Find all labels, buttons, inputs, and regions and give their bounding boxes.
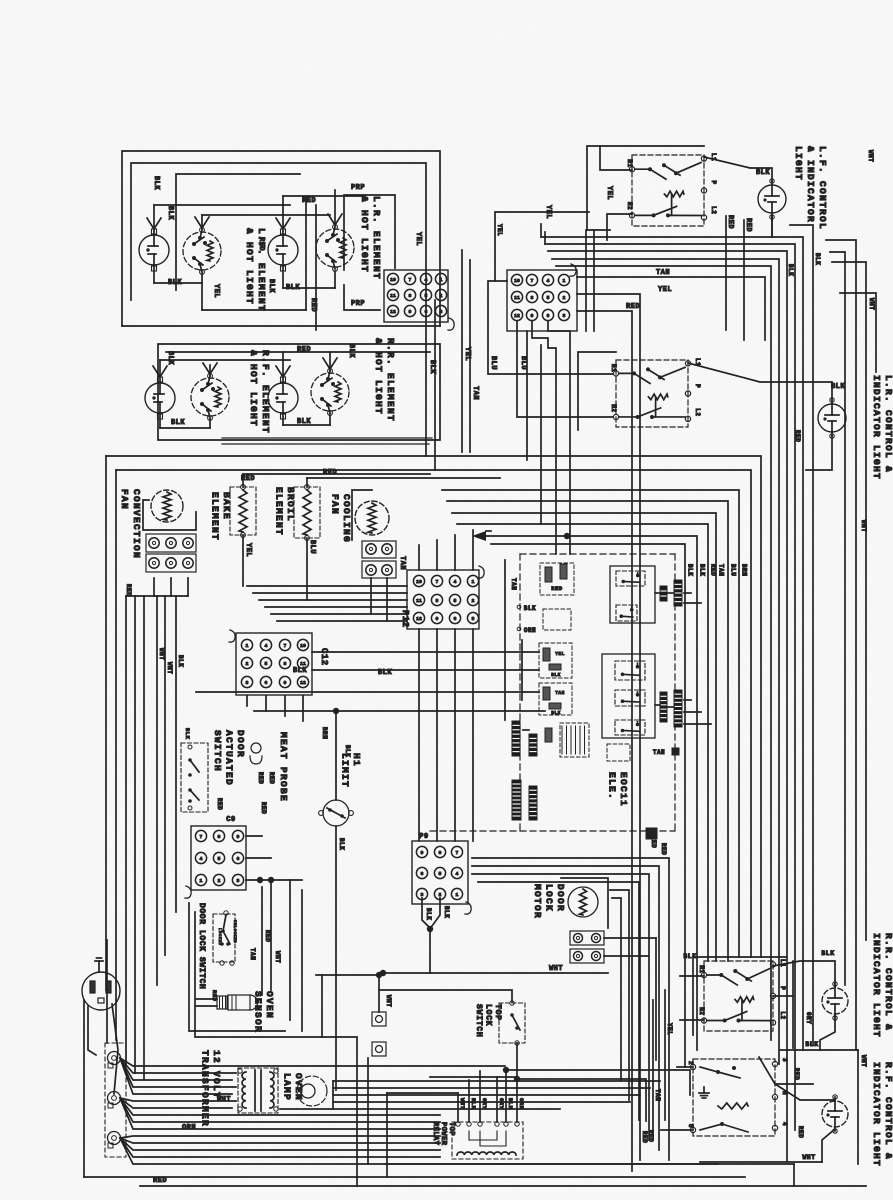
svg-text:H1: H1 xyxy=(610,364,617,372)
svg-text:TAN: TAN xyxy=(555,690,565,696)
svg-text:BLK: BLK xyxy=(171,419,185,427)
svg-text:6: 6 xyxy=(454,616,457,622)
svg-text:BRN: BRN xyxy=(741,564,748,576)
svg-text:BLK: BLK xyxy=(831,383,845,391)
svg-text:7: 7 xyxy=(200,834,203,840)
svg-text:TAN: TAN xyxy=(654,1089,661,1101)
svg-text:LOCKED: LOCKED xyxy=(217,928,221,946)
svg-text:BLK: BLK xyxy=(551,672,561,678)
svg-text:P12: P12 xyxy=(400,610,410,628)
svg-text:GRY: GRY xyxy=(805,1012,812,1024)
svg-text:RED: RED xyxy=(794,430,801,442)
svg-text:WHT: WHT xyxy=(459,1098,466,1110)
svg-text:R.F. CONTROL &INDICATOR LIGHT: R.F. CONTROL &INDICATOR LIGHT xyxy=(871,1062,893,1167)
svg-text:ORN: ORN xyxy=(182,1124,196,1132)
svg-text:TAN: TAN xyxy=(653,749,665,756)
svg-text:ORN: ORN xyxy=(518,1098,525,1109)
svg-text:BLK: BLK xyxy=(166,206,174,220)
svg-text:RED: RED xyxy=(257,237,265,251)
svg-text:L2: L2 xyxy=(710,206,717,214)
svg-text:9: 9 xyxy=(237,834,240,840)
svg-text:4: 4 xyxy=(547,278,550,284)
svg-text:3: 3 xyxy=(237,878,240,884)
svg-text:5: 5 xyxy=(265,661,268,667)
svg-text:RED: RED xyxy=(744,218,752,232)
svg-text:7: 7 xyxy=(284,643,287,649)
svg-text:2: 2 xyxy=(687,1061,694,1065)
svg-text:BLU: BLU xyxy=(730,564,737,576)
svg-text:8: 8 xyxy=(436,598,439,604)
svg-text:10: 10 xyxy=(390,277,396,283)
svg-text:5: 5 xyxy=(687,1124,694,1128)
svg-text:BLK: BLK xyxy=(821,950,834,957)
svg-text:C12: C12 xyxy=(319,648,329,666)
svg-text:BLK: BLK xyxy=(551,710,561,716)
svg-text:P: P xyxy=(779,986,786,990)
svg-text:10: 10 xyxy=(300,643,306,649)
svg-text:BLK: BLK xyxy=(443,906,450,918)
svg-text:GRY: GRY xyxy=(498,1098,505,1110)
svg-text:DOOR LOCK SWITCH: DOOR LOCK SWITCH xyxy=(197,903,206,989)
svg-text:RED: RED xyxy=(797,1126,804,1138)
svg-text:R.R. ELEMENT& HOT LIGHT: R.R. ELEMENT& HOT LIGHT xyxy=(373,338,396,422)
svg-text:YEL: YEL xyxy=(658,286,672,294)
svg-text:RED: RED xyxy=(793,1068,800,1080)
svg-text:BLK: BLK xyxy=(297,418,311,426)
svg-text:11: 11 xyxy=(514,295,520,301)
svg-text:L.R. ELEMENT& HOT LIGHT: L.R. ELEMENT& HOT LIGHT xyxy=(359,196,382,280)
svg-text:BLK: BLK xyxy=(177,655,184,667)
svg-text:5: 5 xyxy=(454,598,457,604)
svg-text:PRP: PRP xyxy=(351,300,365,308)
svg-text:H2: H2 xyxy=(698,1007,705,1015)
svg-text:5: 5 xyxy=(425,293,428,299)
svg-text:3: 3 xyxy=(440,309,443,315)
svg-text:2: 2 xyxy=(472,598,475,604)
svg-text:3: 3 xyxy=(246,680,249,686)
svg-text:BLU: BLU xyxy=(519,356,527,370)
svg-text:2: 2 xyxy=(440,293,443,299)
svg-text:BLK: BLK xyxy=(805,1041,818,1048)
svg-text:H2: H2 xyxy=(626,202,633,210)
svg-text:8: 8 xyxy=(218,834,221,840)
svg-text:BLK: BLK xyxy=(152,176,160,190)
svg-text:H1: H1 xyxy=(626,159,633,167)
svg-text:YEL: YEL xyxy=(605,186,613,200)
svg-text:TAN: TAN xyxy=(656,269,670,277)
svg-text:7: 7 xyxy=(456,850,459,856)
svg-text:H2: H2 xyxy=(610,404,617,412)
svg-text:BLK: BLK xyxy=(683,953,696,960)
svg-text:8: 8 xyxy=(409,293,412,299)
svg-text:12: 12 xyxy=(390,309,396,315)
svg-text:RED: RED xyxy=(726,215,734,229)
svg-text:WHT: WHT xyxy=(385,995,392,1007)
svg-text:RED: RED xyxy=(710,564,717,576)
svg-text:TAN: TAN xyxy=(510,578,517,590)
svg-text:WHT: WHT xyxy=(860,1055,867,1067)
svg-text:6: 6 xyxy=(425,309,428,315)
svg-text:WHT: WHT xyxy=(860,520,867,532)
svg-text:BLK: BLK xyxy=(184,728,191,740)
svg-text:YEL: YEL xyxy=(666,1023,673,1035)
svg-text:7: 7 xyxy=(409,277,412,283)
svg-text:ORN: ORN xyxy=(524,627,536,634)
svg-text:P: P xyxy=(710,181,717,185)
svg-text:RED: RED xyxy=(268,772,275,784)
svg-text:H1: H1 xyxy=(698,965,705,973)
svg-text:12: 12 xyxy=(416,616,422,622)
svg-text:BLK: BLK xyxy=(267,279,275,293)
svg-text:YEL: YEL xyxy=(555,651,565,657)
svg-text:YEL: YEL xyxy=(463,347,471,361)
svg-text:RED: RED xyxy=(309,298,317,312)
svg-text:1: 1 xyxy=(563,278,566,284)
svg-text:R.F. ELEMENT& HOT LIGHT: R.F. ELEMENT& HOT LIGHT xyxy=(248,350,271,434)
svg-text:L2: L2 xyxy=(779,1011,786,1019)
svg-text:4: 4 xyxy=(454,579,457,585)
svg-text:BLK: BLK xyxy=(338,838,345,850)
svg-text:TAN: TAN xyxy=(249,948,256,960)
svg-text:4: 4 xyxy=(456,871,459,877)
svg-text:BLK: BLK xyxy=(787,264,794,276)
svg-text:RED: RED xyxy=(297,346,311,354)
svg-text:L2: L2 xyxy=(694,408,701,416)
svg-text:1: 1 xyxy=(472,579,475,585)
svg-text:BLK: BLK xyxy=(687,564,694,576)
svg-text:BLK: BLK xyxy=(524,605,536,612)
svg-text:BRN: BRN xyxy=(321,727,328,739)
svg-text:11: 11 xyxy=(300,661,306,667)
svg-text:9: 9 xyxy=(531,313,534,319)
svg-text:RED: RED xyxy=(626,303,640,311)
svg-text:RED: RED xyxy=(660,843,667,855)
svg-text:3: 3 xyxy=(472,616,475,622)
svg-text:WHT: WHT xyxy=(802,1154,815,1161)
svg-text:BLK: BLK xyxy=(344,745,351,757)
svg-text:YEL: YEL xyxy=(244,543,252,557)
svg-text:7: 7 xyxy=(531,278,534,284)
svg-text:BLK: BLK xyxy=(699,564,706,576)
svg-text:BLK: BLK xyxy=(168,279,182,287)
svg-text:WHT: WHT xyxy=(868,298,875,310)
svg-text:12: 12 xyxy=(300,680,306,686)
svg-text:RED: RED xyxy=(216,798,223,810)
svg-text:BLK: BLK xyxy=(286,284,300,292)
svg-text:2: 2 xyxy=(439,892,442,898)
svg-text:11: 11 xyxy=(390,293,396,299)
svg-text:BLK: BLK xyxy=(425,908,432,920)
svg-text:C9: C9 xyxy=(226,816,235,824)
svg-text:12: 12 xyxy=(514,313,520,319)
svg-text:TAN: TAN xyxy=(718,564,725,576)
svg-text:YEL: YEL xyxy=(496,224,503,236)
svg-text:BLK: BLK xyxy=(470,1098,477,1110)
svg-text:WHT: WHT xyxy=(549,965,563,973)
svg-text:R.R. CONTROL &INDICATOR LIGHT: R.R. CONTROL &INDICATOR LIGHT xyxy=(871,933,893,1038)
svg-text:RED: RED xyxy=(302,197,316,205)
svg-text:TAN: TAN xyxy=(471,386,479,400)
svg-text:9: 9 xyxy=(421,850,424,856)
svg-text:7: 7 xyxy=(436,579,439,585)
svg-text:BLK: BLK xyxy=(293,667,307,675)
svg-text:BLK: BLK xyxy=(756,169,770,177)
svg-text:RED: RED xyxy=(153,1177,167,1185)
svg-text:3: 3 xyxy=(421,892,424,898)
svg-text:BLK: BLK xyxy=(166,351,174,365)
svg-text:BLK: BLK xyxy=(507,1098,514,1110)
svg-text:9: 9 xyxy=(436,616,439,622)
svg-text:1: 1 xyxy=(440,277,443,283)
svg-text:6: 6 xyxy=(237,856,240,862)
svg-text:10: 10 xyxy=(514,278,520,284)
svg-text:2: 2 xyxy=(218,878,221,884)
svg-text:RED: RED xyxy=(323,469,337,477)
svg-text:BLK: BLK xyxy=(347,344,355,358)
svg-text:10: 10 xyxy=(416,579,422,585)
svg-text:3: 3 xyxy=(781,1058,788,1062)
svg-text:WHT: WHT xyxy=(274,951,281,963)
svg-text:2: 2 xyxy=(246,661,249,667)
svg-text:1: 1 xyxy=(246,643,249,649)
svg-text:P: P xyxy=(694,384,701,388)
svg-text:RED: RED xyxy=(260,802,267,814)
svg-text:L.R. CONTROL &INDICATOR LIGHT: L.R. CONTROL &INDICATOR LIGHT xyxy=(871,375,893,480)
svg-text:MEAT PROBE: MEAT PROBE xyxy=(278,732,289,802)
svg-text:WHT: WHT xyxy=(867,150,874,162)
svg-text:4: 4 xyxy=(425,277,428,283)
svg-text:3: 3 xyxy=(563,313,566,319)
svg-text:RED: RED xyxy=(125,584,132,596)
svg-text:WHT: WHT xyxy=(166,662,173,674)
svg-text:BLU: BLU xyxy=(308,540,316,554)
svg-text:4: 4 xyxy=(200,856,203,862)
svg-text:9: 9 xyxy=(409,309,412,315)
svg-text:GRY: GRY xyxy=(481,1098,488,1110)
svg-text:11: 11 xyxy=(416,598,422,604)
svg-text:BLK: BLK xyxy=(814,253,821,265)
svg-text:BLU: BLU xyxy=(489,356,497,370)
svg-text:5: 5 xyxy=(218,856,221,862)
svg-text:8: 8 xyxy=(439,850,442,856)
svg-text:PRP: PRP xyxy=(351,184,365,192)
svg-text:BLK: BLK xyxy=(428,360,436,374)
svg-text:RED: RED xyxy=(641,1131,648,1143)
svg-text:WHT: WHT xyxy=(158,648,165,660)
svg-text:9: 9 xyxy=(284,680,287,686)
svg-text:RED: RED xyxy=(257,772,264,784)
svg-text:8: 8 xyxy=(284,661,287,667)
svg-text:TAN: TAN xyxy=(398,556,406,570)
svg-text:5: 5 xyxy=(547,295,550,301)
svg-text:5: 5 xyxy=(439,871,442,877)
svg-text:YEL: YEL xyxy=(212,284,220,298)
svg-text:4: 4 xyxy=(781,1122,788,1126)
svg-text:1: 1 xyxy=(456,892,459,898)
svg-text:4: 4 xyxy=(265,643,268,649)
svg-text:1: 1 xyxy=(200,878,203,884)
svg-text:P9: P9 xyxy=(419,833,428,841)
svg-text:RED: RED xyxy=(211,990,218,1002)
svg-text:RED: RED xyxy=(551,585,563,592)
svg-text:8: 8 xyxy=(531,295,534,301)
svg-text:UNLOCKED: UNLOCKED xyxy=(232,920,236,943)
svg-text:RED: RED xyxy=(264,930,271,942)
svg-text:YEL: YEL xyxy=(414,232,422,246)
svg-text:6: 6 xyxy=(265,680,268,686)
svg-text:2: 2 xyxy=(563,295,566,301)
svg-text:RED: RED xyxy=(650,836,657,848)
svg-text:6: 6 xyxy=(421,871,424,877)
svg-text:6: 6 xyxy=(547,313,550,319)
svg-text:BLK: BLK xyxy=(378,669,392,677)
